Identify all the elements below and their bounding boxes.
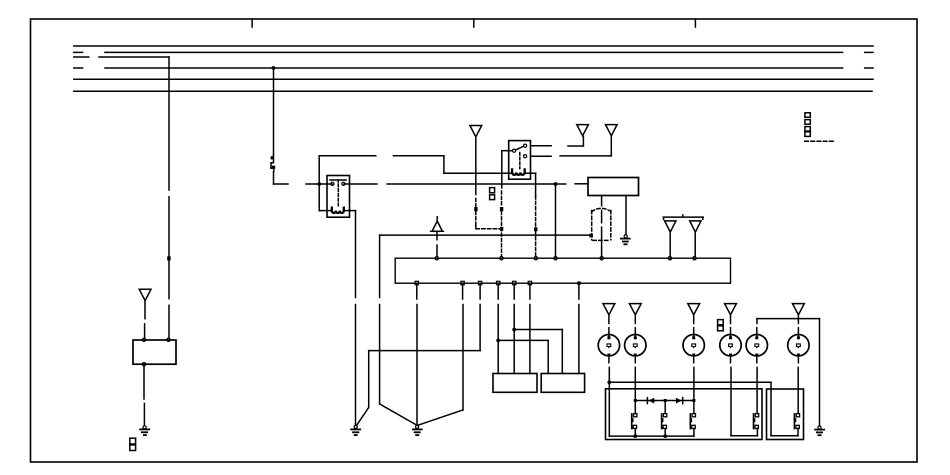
connector triangle above motor M6: [793, 304, 805, 315]
connector triangle T4: [606, 125, 618, 136]
wire: motor M1 return with junction: [609, 357, 771, 437]
relay K1 contact right: [342, 182, 345, 185]
bus wire 4: [74, 67, 873, 69]
control box terminal bottom: [142, 363, 145, 366]
wire: junction box output to switch box B pin3: [578, 285, 580, 374]
relay K1 coil: [332, 208, 344, 213]
diode D2: [676, 398, 683, 404]
connector pin on T2 wire: [474, 207, 477, 211]
wire: module right leg to ground G3: [625, 196, 627, 235]
connector pin on junction box bottom edge: [577, 281, 580, 284]
wire: T1 dashed drop to control box: [144, 301, 146, 338]
node: junction at branch: [512, 328, 516, 332]
wire: motor M5 drop to switch S4: [756, 357, 758, 414]
relay K2 contact upper: [524, 144, 527, 147]
connector triangle above motor M4: [725, 304, 737, 315]
node: junction at branch: [496, 339, 500, 343]
relay K2 contact lower: [524, 155, 527, 158]
relay K2 common contact: [512, 149, 515, 152]
connector triangle above motor M1: [603, 304, 615, 315]
wire: taps to switches S1 S3: [635, 401, 694, 414]
relay K2 plunger dashed link: [519, 153, 521, 169]
wire: module left leg to junction box: [601, 196, 603, 257]
relay K2 blade: [516, 146, 524, 150]
node: diode bus middle: [664, 399, 667, 402]
connector triangle T1: [139, 289, 151, 300]
wire: relay K1 output main feed: [344, 183, 588, 185]
diode bus inside box1: [635, 400, 694, 402]
control module box: [588, 178, 639, 196]
relay K1 plunger dashed link: [337, 184, 339, 207]
ground G4: [815, 426, 824, 435]
connector blocks near motor M4: [718, 320, 724, 331]
ground G2: [413, 425, 422, 435]
node: junction on bus wire 4: [272, 66, 276, 70]
ground G3: [621, 235, 630, 245]
wire: vertical drop from bus wire 4: [273, 68, 275, 155]
wire: breaker to relay K1: [274, 172, 333, 184]
wire: vertical feed from bus wire 3 down left side: [168, 57, 170, 256]
diode D1: [647, 398, 654, 404]
bus wire 6: [74, 90, 872, 92]
switch S5: [794, 414, 799, 429]
control box terminal left: [142, 338, 145, 341]
wire: junction box drop routed left to ground G1: [357, 285, 480, 425]
wire: left feed wire continues to control box: [168, 261, 170, 339]
switch assembly box 2: [767, 389, 804, 440]
wire: relay K2 lower contact to connector T4: [531, 136, 612, 156]
relay K1 contact left: [331, 182, 334, 185]
relay K1 box: [327, 176, 350, 218]
wire: junction box output to switch box A pin1 with branch: [498, 285, 548, 374]
ground G1: [351, 425, 360, 435]
warning triangle node: [431, 217, 444, 231]
relay K2 box: [509, 141, 531, 180]
connector pin on that wire: [500, 207, 503, 211]
node: diode bus left: [634, 399, 637, 402]
motor M2: [625, 335, 646, 357]
noise suppressor (dashed): [592, 208, 611, 240]
wire: route into switch box 2: [771, 382, 798, 435]
option connector (top right, four blocks): [805, 113, 810, 137]
wire: motor M4 drop into box1: [731, 357, 758, 436]
node: diode bus right: [692, 399, 695, 402]
control box (bottom left): [133, 340, 176, 364]
relay K1 contact bar: [330, 180, 346, 182]
connector pin into suppressor: [589, 234, 593, 238]
connector blocks (two small squares) beside relay K2: [490, 188, 495, 200]
switch assembly box 1: [606, 389, 763, 440]
wire: T2 drop (dashed harness): [475, 137, 477, 206]
connector pin joining T2 route: [500, 227, 503, 231]
wire: junction box output to switch box A pin3: [529, 285, 531, 374]
motor M1: [598, 335, 619, 357]
wire: junction down to box terminal: [555, 184, 557, 256]
connector pin on left feed wire: [167, 256, 170, 260]
motor M4: [720, 335, 741, 357]
junction box bottom terminals: [415, 281, 532, 284]
wire: relay K2 coil output down to connector: [525, 173, 536, 227]
wire: long horizontal to suppressor: [380, 234, 590, 236]
wire: junction box drop joining ground funnel: [418, 285, 463, 425]
bus wire 1 (top horizontal): [74, 45, 873, 47]
connector triangle T2: [470, 126, 482, 137]
double connector triangles with bar: [663, 215, 703, 256]
wire: relay K1 to relay K2 coil (upper route): [319, 156, 512, 173]
bus wire 2: [74, 51, 873, 53]
switch S3: [690, 414, 695, 437]
connector triangle above motor M2: [629, 304, 641, 315]
node: junction on main feed above junction box: [554, 182, 558, 186]
wire: junction box output to switch box A pin2 with branch: [514, 285, 562, 374]
wire: relay K2 upper contact to connector T3: [531, 136, 584, 146]
wire: motor M5 feed from right ground rail: [757, 319, 820, 426]
node: bus junction 2: [663, 434, 667, 438]
switch S2: [662, 414, 667, 437]
wire: relay K1 coil to ground G1: [344, 211, 356, 426]
bus wire 5: [74, 78, 873, 80]
junction box top terminals: [435, 257, 696, 260]
switch S4: [754, 414, 759, 429]
wire: dashed continuation to junction box: [535, 231, 537, 256]
connector pin on relay K2 coil wire: [534, 227, 537, 231]
node: bus junction 1: [633, 434, 637, 438]
wire: motor M2 drop: [634, 357, 636, 401]
node: junction at motor M1 return: [607, 380, 611, 384]
connector blocks (bottom left): [130, 438, 136, 450]
wire: T2 dashed route to junction box: [476, 212, 500, 229]
ground G5: [140, 426, 149, 435]
motor M6: [788, 335, 809, 357]
circuit breaker symbol: [271, 155, 276, 173]
switch box A: [493, 374, 537, 393]
wire: drop to ground funnel from suppressor feed: [380, 235, 417, 425]
wire: warning triangle drop to junction box: [436, 232, 438, 257]
motor M5: [746, 335, 767, 357]
connector triangle above motor M3: [688, 304, 700, 315]
wire: junction box to ground G2 (straight): [416, 285, 418, 426]
connector triangle T3: [577, 125, 589, 136]
node: junction at relay K1 input: [317, 182, 321, 186]
wire: dashed vertical from relay K2 common down to junction box: [501, 191, 503, 256]
motor M3: [683, 335, 704, 357]
wire: middle tap to switch S2: [664, 401, 666, 414]
relay K2 coil: [512, 169, 525, 174]
junction box (long connector strip): [395, 258, 730, 283]
switch S1: [632, 414, 637, 437]
wire: relay K2 common branch: [502, 151, 513, 188]
switch box B: [541, 374, 584, 393]
wire: triangle stems to motors: [609, 315, 799, 336]
option connector dashed lead: [805, 140, 834, 142]
wire: relay K1 branch up and coil feed: [319, 156, 332, 211]
control box terminal right: [167, 338, 170, 341]
wire: motor M6 drop to switch S5: [797, 357, 799, 414]
wire: motor M3 drop: [693, 357, 695, 401]
wire: switch bottom bus in box1: [609, 435, 694, 437]
bus wire 3: [74, 56, 169, 58]
wire: control box to ground G5: [143, 366, 145, 426]
